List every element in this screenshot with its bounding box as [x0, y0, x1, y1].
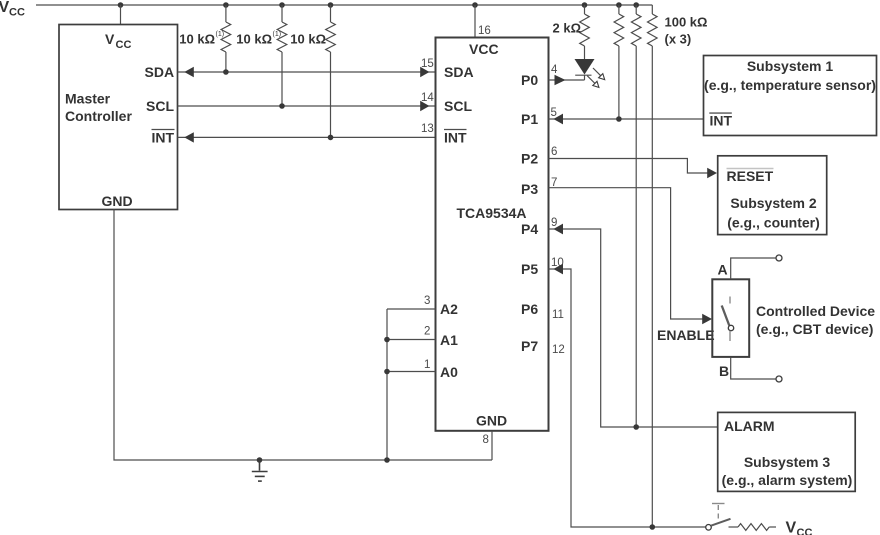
terminal A circle [776, 255, 782, 261]
svg-text:Subsystem 1: Subsystem 1 [747, 58, 834, 74]
wire P3 net to ENABLE [549, 188, 708, 319]
node junction R3-INT [328, 135, 334, 141]
label Master Controller [65, 91, 132, 125]
svg-text:15: 15 [421, 58, 434, 70]
wire VCC top rail [36, 4, 652, 6]
resistor R4 2k LED series [580, 5, 590, 59]
label R2 10 kOhm (1) [236, 31, 281, 47]
svg-text:CC: CC [116, 39, 132, 51]
arrow SDA into master [184, 67, 194, 77]
arrow P0 output [555, 75, 566, 85]
resistor R3 10k INT pullup [326, 5, 336, 137]
wire U2 pin16 VCC drop [474, 5, 476, 38]
svg-text:12: 12 [552, 344, 565, 356]
switch S2 actuator dashed stem [717, 505, 719, 519]
arrow SCL into U2 pin14 [420, 101, 429, 111]
label R5-R7 100 kOhm (x 3) [665, 15, 708, 47]
svg-text:ALARM: ALARM [724, 418, 775, 434]
node junction R2-SCL [279, 103, 285, 109]
arrow P4 input into U2 [553, 224, 563, 235]
LED D1 light arrow 1 [593, 68, 605, 80]
switch S1 fixed contact [729, 297, 731, 304]
node junction R3 on rail [328, 2, 334, 8]
label RESET overline [727, 168, 774, 170]
svg-text:1: 1 [424, 359, 430, 371]
svg-text:INT: INT [710, 113, 733, 129]
wire A1 [387, 339, 436, 341]
node junction R1-SDA [223, 69, 229, 75]
svg-text:Controlled Device: Controlled Device [756, 303, 875, 319]
svg-text:Subsystem 2: Subsystem 2 [730, 195, 817, 211]
svg-text:GND: GND [102, 193, 133, 209]
arrow P1 input into U2 [553, 114, 563, 125]
terminal B circle [776, 376, 782, 382]
svg-text:P0: P0 [521, 72, 538, 88]
svg-text:SCL: SCL [146, 98, 174, 114]
svg-text:A0: A0 [440, 364, 458, 380]
svg-text:(e.g., alarm system): (e.g., alarm system) [722, 472, 853, 488]
svg-text:P2: P2 [521, 151, 538, 167]
resistor R1 10k SDA pullup [221, 5, 231, 72]
svg-text:(x 3): (x 3) [665, 32, 692, 47]
svg-text:6: 6 [551, 146, 557, 158]
wire R8 to VCC [769, 526, 776, 528]
svg-text:P3: P3 [521, 181, 538, 197]
svg-text:8: 8 [483, 434, 489, 446]
wire SCL net master to U2 [178, 105, 436, 107]
svg-text:V: V [105, 31, 115, 47]
svg-text:5: 5 [551, 107, 557, 119]
IC U2 TCA9534A box [436, 38, 549, 431]
wire P0 to LED [549, 79, 585, 81]
svg-text:SCL: SCL [444, 98, 472, 114]
net VCC label bottom right [786, 520, 813, 535]
label R1 10 kOhm (1) [179, 31, 224, 47]
svg-text:CC: CC [9, 7, 25, 19]
wire P5 net to switch rail [549, 269, 707, 527]
svg-text:16: 16 [478, 25, 491, 37]
resistor R5 100k [614, 5, 624, 119]
svg-text:A2: A2 [440, 301, 458, 317]
block Subsystem 1 box [704, 56, 877, 136]
block U1 Master Controller box [59, 25, 178, 210]
arrow INT into master [184, 132, 194, 142]
switch S2 blade [711, 519, 730, 526]
svg-text:P5: P5 [521, 261, 538, 277]
wire A0 [387, 371, 436, 373]
svg-text:Master: Master [65, 91, 111, 107]
node junction R1 on rail [223, 2, 229, 8]
svg-text:TCA9534A: TCA9534A [457, 205, 527, 221]
node junction pin16 on rail [472, 2, 478, 8]
resistor R7 100k [648, 5, 658, 527]
svg-text:A1: A1 [440, 332, 458, 348]
svg-text:CC: CC [797, 527, 813, 535]
svg-text:Subsystem 3: Subsystem 3 [744, 454, 831, 470]
wire INT net U2 to master [178, 136, 436, 138]
svg-text:100 kΩ: 100 kΩ [665, 15, 708, 30]
wire P1 net to Subsystem 1 INT [549, 118, 704, 120]
switch S2 actuator T bar [712, 503, 725, 505]
svg-text:10 kΩ: 10 kΩ [236, 32, 272, 47]
LED D1 light arrow 2 [587, 76, 599, 88]
svg-text:SDA: SDA [444, 64, 474, 80]
svg-text:P7: P7 [521, 338, 538, 354]
svg-text:ENABLE: ENABLE [657, 327, 715, 343]
svg-text:A: A [718, 262, 728, 278]
arrow ENABLE into switch box [702, 314, 712, 324]
block controlled device switch box [712, 279, 749, 357]
svg-text:10 kΩ: 10 kΩ [179, 32, 215, 47]
node junction R5 on rail [616, 2, 622, 8]
node junction R5 on P1 [616, 116, 622, 122]
block Subsystem 2 box [718, 156, 827, 235]
node junction master VCC on rail [118, 2, 124, 8]
label U2 INTn [444, 130, 467, 146]
arrow SDA into U2 pin15 [420, 67, 429, 77]
label Subsystem1 INTn [709, 113, 732, 129]
wire terminal A [731, 258, 776, 279]
resistor R6 100k [631, 5, 641, 427]
switch S1 pivot circle [728, 325, 733, 330]
net VCC label top-left [0, 0, 25, 19]
resistor R8 series VCC [738, 524, 769, 531]
svg-text:(e.g., CBT device): (e.g., CBT device) [756, 321, 873, 337]
wire master VCC drop [120, 5, 122, 25]
wire U2 pin8 GND drop [491, 431, 493, 460]
svg-text:RESET: RESET [727, 168, 774, 184]
svg-text:SDA: SDA [145, 64, 175, 80]
wire address bus vertical [386, 309, 388, 460]
svg-text:10 kΩ: 10 kΩ [290, 32, 326, 47]
node junction R2 on rail [279, 2, 285, 8]
wire P4 net to ALARM [549, 229, 718, 427]
wire master GND drop [114, 210, 492, 461]
svg-text:2: 2 [424, 326, 430, 338]
node junction ground symbol stem [257, 457, 263, 463]
svg-text:Controller: Controller [65, 108, 132, 124]
node junction A0 [384, 369, 390, 375]
svg-text:(e.g., counter): (e.g., counter) [727, 215, 820, 231]
node junction A1 [384, 337, 390, 343]
svg-text:3: 3 [424, 295, 430, 307]
svg-text:B: B [719, 363, 729, 379]
svg-text:13: 13 [421, 123, 434, 135]
node junction R6 on rail [633, 2, 639, 8]
svg-text:VCC: VCC [469, 41, 499, 57]
node junction R7 on P5 rail [650, 524, 656, 530]
switch S1 lower stub [729, 331, 731, 341]
svg-text:2 kΩ: 2 kΩ [553, 21, 582, 36]
label master INTn [152, 130, 175, 146]
switch S2 pivot circle [706, 525, 712, 531]
ground symbol [252, 460, 268, 481]
svg-text:GND: GND [476, 413, 507, 429]
switch S1 blade [722, 306, 730, 326]
svg-text:V: V [786, 520, 797, 535]
svg-text:11: 11 [552, 309, 564, 321]
node junction R4 2k on rail [582, 2, 588, 8]
svg-text:P1: P1 [521, 111, 538, 127]
arrow RESET into Subsystem 2 [707, 168, 717, 178]
resistor R2 10k SCL pullup [277, 5, 287, 106]
svg-text:(1): (1) [216, 31, 225, 38]
arrow P5 input into U2 [553, 264, 563, 275]
svg-text:INT: INT [152, 130, 175, 146]
svg-text:INT: INT [444, 130, 467, 146]
wire A2 to address bus [387, 308, 436, 310]
node junction R6 on ALARM wire [633, 424, 639, 430]
wire SDA net master to U2 [178, 71, 436, 73]
LED D1 [575, 59, 595, 80]
svg-text:P6: P6 [521, 301, 538, 317]
wire terminal B [731, 358, 776, 380]
block Subsystem 3 box [718, 412, 856, 491]
svg-text:(1): (1) [273, 31, 282, 38]
svg-text:4: 4 [551, 64, 558, 76]
svg-text:9: 9 [551, 217, 557, 229]
svg-text:(e.g., temperature sensor): (e.g., temperature sensor) [704, 77, 876, 93]
wire P2 net to RESET [549, 159, 708, 174]
label master VCC [105, 31, 131, 51]
wire switch to R8 [729, 526, 739, 528]
svg-text:14: 14 [421, 92, 434, 104]
node junction address bus to ground rail [384, 457, 390, 463]
svg-text:P4: P4 [521, 221, 538, 237]
